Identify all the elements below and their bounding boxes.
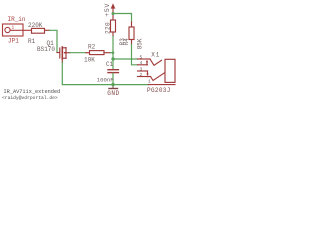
svg-text:R2: R2 (88, 44, 96, 51)
svg-text:3: 3 (140, 66, 143, 72)
svg-text:220K: 220K (28, 22, 43, 29)
svg-text:1: 1 (12, 25, 15, 31)
svg-text:IR_AV711x_extended: IR_AV711x_extended (4, 89, 61, 95)
svg-text:4: 4 (140, 60, 143, 66)
svg-text:1: 1 (148, 79, 151, 85)
svg-text:2: 2 (140, 72, 143, 78)
svg-text:BS170: BS170 (37, 46, 55, 53)
svg-text:R4: R4 (123, 38, 130, 46)
svg-text:100nF: 100nF (97, 77, 114, 84)
svg-text:+5V: +5V (104, 3, 111, 17)
svg-text:JP1: JP1 (8, 38, 19, 45)
svg-text:C1: C1 (106, 61, 114, 68)
svg-text:220: 220 (105, 22, 112, 34)
svg-text:PG203J: PG203J (147, 87, 171, 94)
svg-text:10K: 10K (84, 57, 95, 64)
svg-text:5: 5 (140, 54, 143, 60)
svg-text:GND: GND (107, 90, 119, 97)
svg-text:R1: R1 (28, 38, 36, 45)
svg-text:IR_in: IR_in (8, 16, 26, 23)
svg-text:X1: X1 (151, 52, 160, 59)
svg-text:85K: 85K (136, 38, 143, 49)
svg-text:<raidy@vdrportal.de>: <raidy@vdrportal.de> (2, 95, 58, 101)
